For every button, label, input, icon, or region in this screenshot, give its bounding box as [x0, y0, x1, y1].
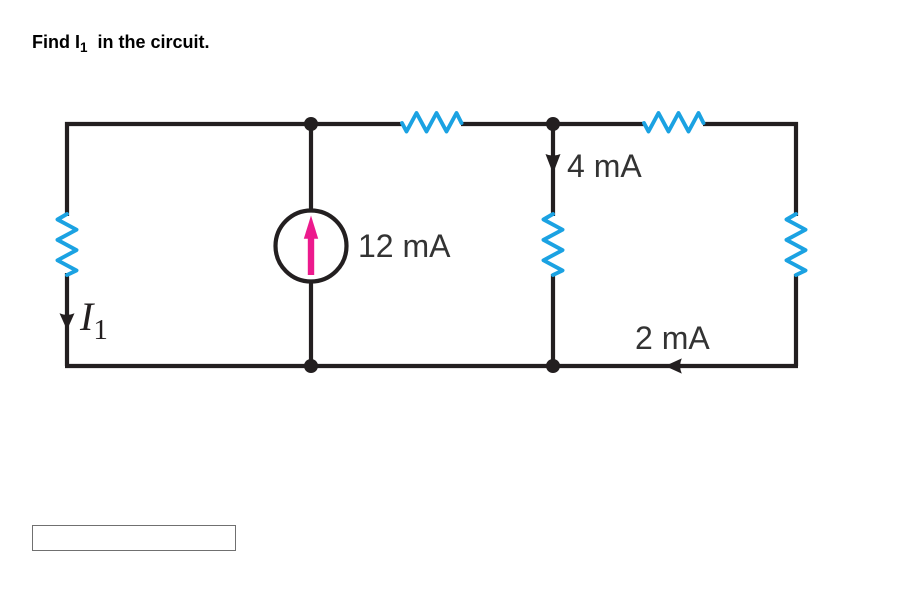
junction node: bottom-right — [546, 359, 560, 373]
wire: current-source branch upper — [309, 124, 313, 210]
wire: current-source branch lower — [309, 282, 313, 366]
resistor: top horizontal R2 — [644, 113, 704, 132]
wire: middle branch upper — [551, 124, 555, 216]
junction node: bottom-left — [304, 359, 318, 373]
title text — [32, 32, 210, 55]
answer input box — [32, 525, 236, 551]
arrow: 2 mA current direction (left) on bottom wire — [665, 358, 682, 373]
wire: middle branch lower — [551, 274, 555, 366]
svg-text:I1: I1 — [79, 294, 108, 346]
wire: top-right segment with right top corner — [703, 124, 796, 216]
wire: right-bottom segment — [794, 274, 798, 366]
wire: left-bottom segment — [65, 273, 69, 366]
svg-text:2 mA: 2 mA — [635, 320, 710, 356]
junction node: top-right — [546, 117, 560, 131]
resistor: left vertical R3 — [58, 214, 77, 275]
svg-text:12 mA: 12 mA — [358, 228, 451, 264]
junction node: top-left — [304, 117, 318, 131]
wire: top-left segment with left top corner — [67, 124, 403, 216]
svg-text:4 mA: 4 mA — [567, 148, 642, 184]
resistor: top horizontal R1 — [402, 113, 462, 132]
wire: top-middle segment — [461, 122, 645, 126]
wire: bottom segment — [65, 364, 798, 368]
current source arrow (magenta) — [304, 216, 318, 276]
arrow: 4 mA current direction (down) on middle branch — [546, 154, 561, 174]
resistor: middle vertical R4 — [544, 214, 563, 275]
arrow: I1 current direction (down) on left wire — [60, 313, 75, 330]
resistor: right vertical R5 — [787, 214, 806, 275]
current source U1 circle — [276, 211, 347, 282]
